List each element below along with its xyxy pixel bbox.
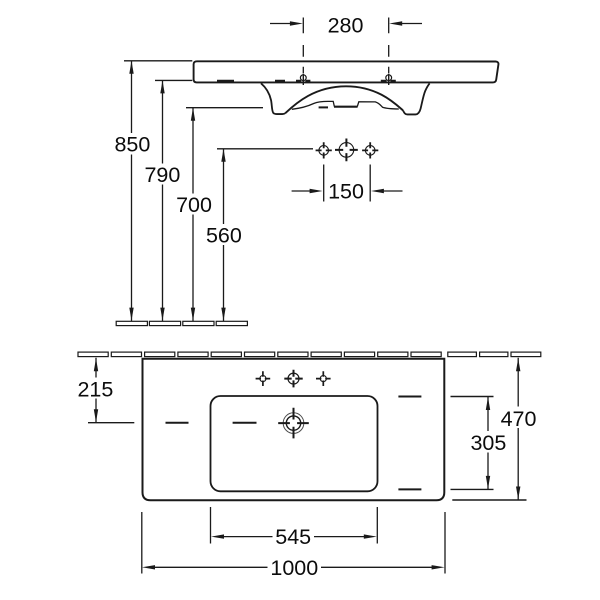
svg-text:790: 790 bbox=[144, 163, 180, 187]
svg-text:850: 850 bbox=[114, 133, 150, 157]
svg-text:470: 470 bbox=[501, 407, 537, 431]
svg-text:700: 700 bbox=[176, 193, 212, 217]
svg-text:215: 215 bbox=[77, 377, 113, 401]
svg-text:1000: 1000 bbox=[270, 556, 318, 580]
svg-text:560: 560 bbox=[206, 224, 242, 248]
svg-text:150: 150 bbox=[328, 180, 364, 204]
svg-text:280: 280 bbox=[328, 14, 364, 38]
svg-text:545: 545 bbox=[275, 525, 311, 549]
svg-text:305: 305 bbox=[470, 431, 506, 455]
